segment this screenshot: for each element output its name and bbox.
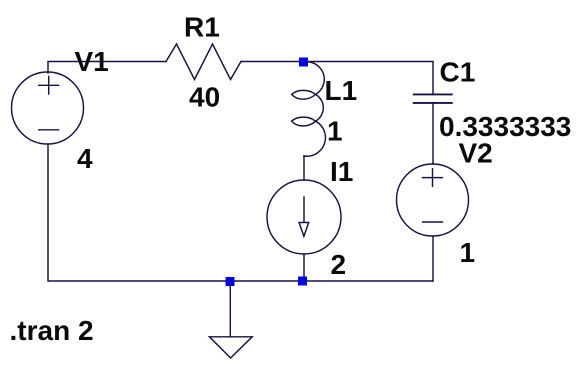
svg-text:L1: L1 [325,75,358,106]
svg-text:1: 1 [460,237,476,268]
svg-text:4: 4 [77,143,93,174]
svg-text:V2: V2 [459,138,493,169]
svg-text:I1: I1 [330,156,353,187]
svg-text:R1: R1 [184,12,220,43]
svg-text:40: 40 [189,82,220,113]
svg-text:C1: C1 [440,57,476,88]
svg-text:V1: V1 [75,46,109,77]
svg-text:2: 2 [331,249,347,280]
svg-text:.tran 2: .tran 2 [10,315,94,346]
svg-text:1: 1 [327,116,343,147]
